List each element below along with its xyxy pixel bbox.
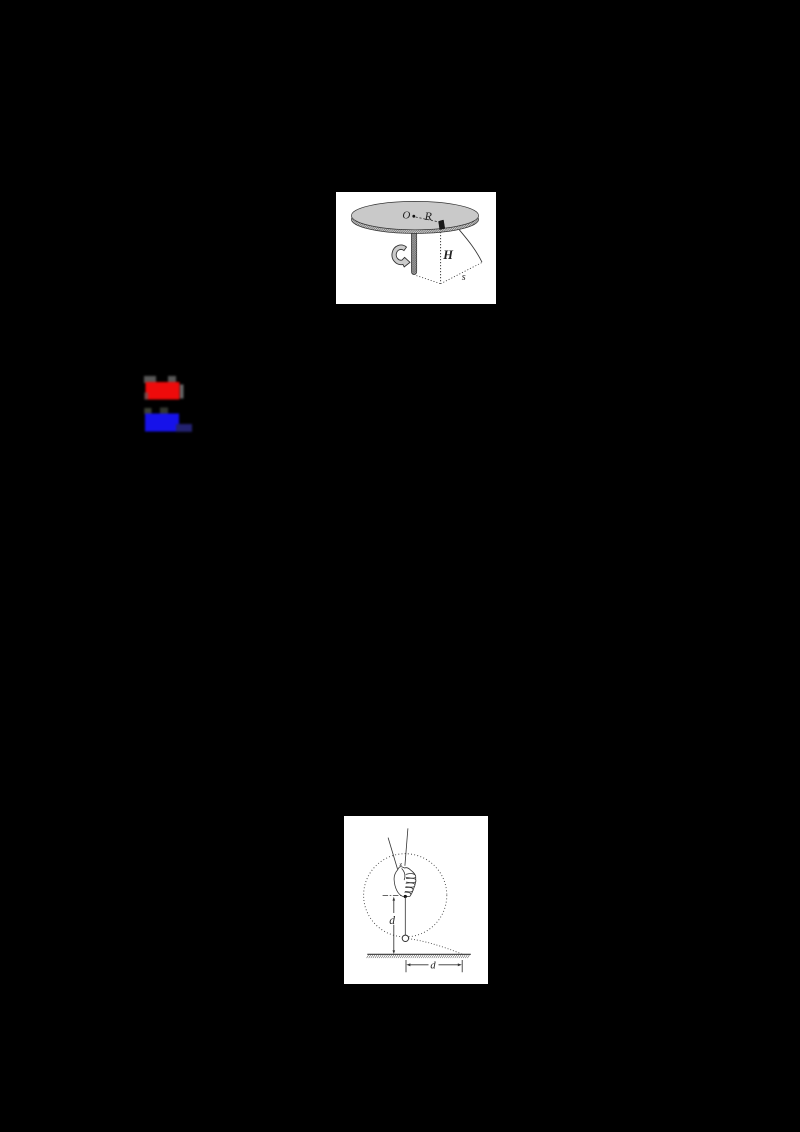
disc top face [351,201,478,229]
string [404,897,406,936]
dotted line post bottom to base point [416,276,440,284]
svg-text:s: s [462,272,466,283]
string upper line [405,828,408,865]
blue analysis text blob [130,398,210,442]
forearm left line [388,838,398,870]
svg-text:d: d [389,915,395,927]
svg-text:H: H [442,248,454,262]
ground line [367,953,471,955]
ball [402,935,408,941]
trajectory curve [459,230,482,262]
horizontal dimension arrows d [410,964,458,966]
disc rim [351,205,478,233]
rotation arrow [392,245,410,267]
post (axle) [411,226,416,275]
vertical dimension arrow d [393,900,395,950]
svg-text:R: R [424,209,433,223]
dotted circle path [364,854,447,937]
dotted vertical H line [440,232,442,284]
radius dashed line R [416,217,439,222]
dotted trajectory to ground [408,939,462,955]
figure 2 panel: hand with conical pendulum [344,816,488,984]
svg-text:O: O [402,209,410,221]
figure 1 panel: rotating table [336,192,496,304]
dash reference line at pivot level [383,895,402,897]
dotted line base point to trajectory end (s) [441,262,483,283]
ground hatching [367,955,470,958]
hand fist [394,863,416,897]
pivot dot [404,895,407,898]
svg-text:d: d [430,960,436,971]
block on disc edge [439,220,445,230]
red answer text blob [130,365,200,411]
center dot [412,215,415,218]
dimension ticks [406,960,462,972]
